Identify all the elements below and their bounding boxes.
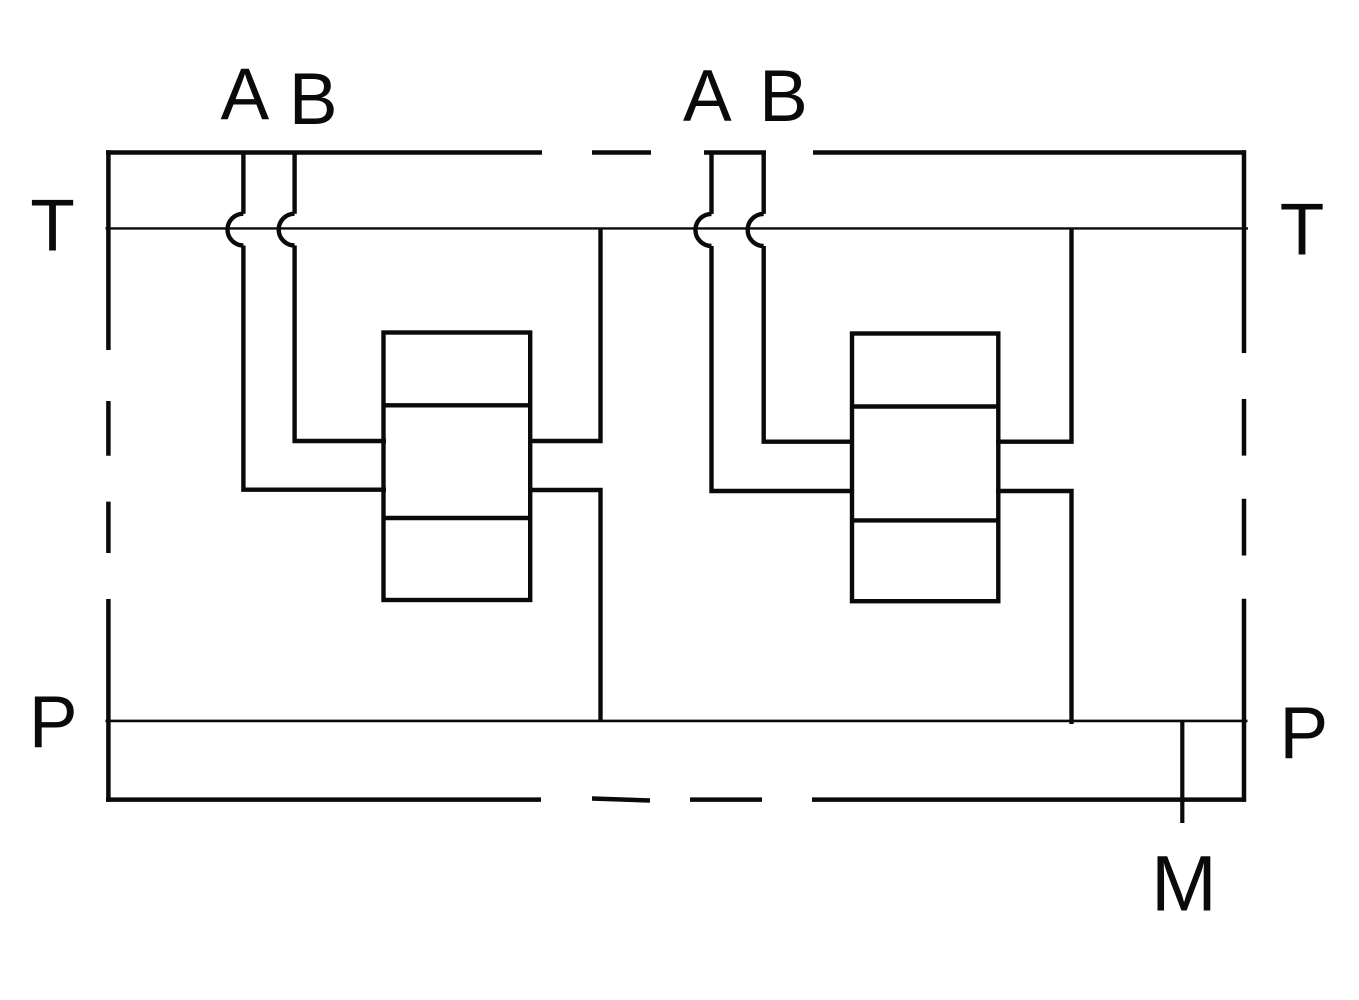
wire hop of B2 over T line: [748, 214, 764, 246]
manifold outline bottom edge left solid segment: [106, 797, 541, 802]
manifold outline right edge upper solid segment: [1242, 150, 1247, 353]
manifold outline top edge right solid segment: [813, 150, 1246, 155]
manifold outline right edge dash 1: [1242, 399, 1247, 456]
svg-text:A: A: [683, 56, 732, 137]
manifold outline left edge lower solid segment: [106, 599, 111, 802]
manifold outline left edge dash 2: [106, 502, 111, 553]
station 2 top bracket segment of outline: [704, 150, 766, 155]
wire valve 2 to T line: [996, 229, 1072, 442]
svg-text:P: P: [29, 682, 78, 763]
manifold outline bottom edge right solid segment: [812, 797, 1246, 802]
svg-text:T: T: [1280, 190, 1325, 271]
manifold outline bottom edge dash 1: [592, 799, 650, 801]
wire port B2 vertical upper segment: [762, 151, 766, 214]
wire hop of B1 over T line: [279, 214, 295, 246]
manifold outline left edge upper solid segment: [106, 150, 111, 350]
wire port A1 vertical lower segment and elbow to valve 1: [243, 246, 386, 490]
wire port B2 vertical lower segment and elbow to valve 2: [764, 246, 854, 442]
valve 2 body outline: [852, 334, 998, 602]
valve 2 upper divider: [852, 404, 998, 408]
valve 2 lower divider: [852, 518, 998, 522]
svg-text:M: M: [1151, 839, 1217, 928]
wire port A2 vertical lower segment and elbow to valve 2: [712, 246, 855, 491]
svg-text:B: B: [289, 59, 338, 140]
wire port A2 vertical upper segment: [709, 151, 713, 214]
wire hop of A2 over T line: [695, 214, 711, 246]
valve 1 upper divider: [384, 403, 531, 407]
valve 1 body outline: [384, 333, 531, 601]
wire valve 2 to P line: [996, 491, 1072, 724]
manifold outline left edge dash 1: [106, 401, 111, 456]
wire M gauge port stub: [1180, 721, 1184, 823]
manifold outline top edge left solid segment: [106, 150, 542, 155]
svg-text:P: P: [1279, 693, 1328, 774]
manifold outline right edge dash 2: [1242, 499, 1247, 556]
wire port A1 vertical upper segment: [241, 151, 245, 214]
svg-text:T: T: [30, 185, 75, 266]
manifold outline right edge lower solid segment: [1242, 599, 1247, 802]
manifold outline top edge dash: [592, 150, 651, 155]
manifold outline bottom edge dash 2: [690, 797, 762, 802]
wire hop of A1 over T line: [228, 214, 244, 246]
wire valve 1 to P line: [528, 490, 601, 721]
svg-text:A: A: [221, 55, 270, 136]
wire valve 1 to T line: [528, 229, 601, 441]
P gallery line: [106, 720, 1248, 723]
wire port B1 vertical lower segment and elbow to valve 1: [295, 246, 386, 442]
svg-text:B: B: [759, 56, 808, 137]
wire port B1 vertical upper segment: [292, 151, 296, 214]
T gallery line: [106, 227, 1249, 229]
valve 1 lower divider: [384, 516, 531, 520]
